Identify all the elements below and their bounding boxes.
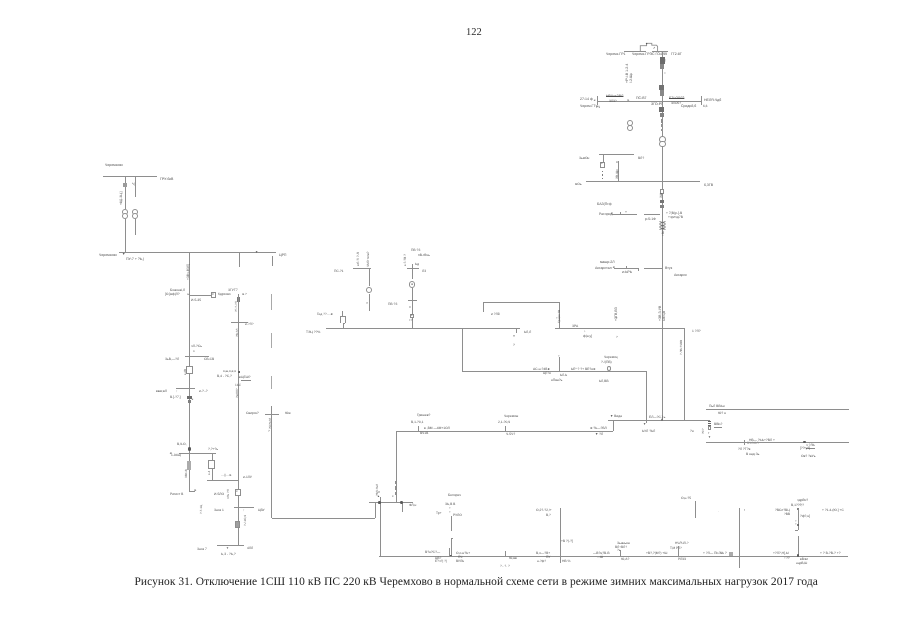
junction dot x401 (400, 501, 402, 503)
tiny mark y350 (193, 350, 195, 353)
marks below x515 (513, 335, 515, 339)
label Zbaneva (617, 542, 630, 545)
rotated label left x238 (227, 489, 230, 499)
label flow y439 (749, 439, 775, 442)
label Raspred (599, 213, 612, 217)
label Rigist V (170, 493, 183, 496)
wire cross on x412 (408, 300, 417, 301)
wire bottom bus y556 (379, 556, 848, 557)
tick x678 (678, 546, 679, 556)
breaker box x211 (208, 460, 215, 470)
marks on x135 (132, 183, 135, 187)
switch box end y295 (211, 292, 217, 298)
wire y480 to x238 (207, 480, 238, 481)
rotated label x702 (702, 429, 705, 435)
tick x505 bus (505, 551, 506, 555)
label bLVV (599, 380, 609, 383)
label bUL (642, 430, 655, 433)
wire drop x211 (212, 453, 213, 480)
tick on raspred line (620, 212, 621, 214)
rotated label x680 (680, 340, 683, 355)
label Zaoz 1 (214, 509, 224, 512)
switch x mark (616, 161, 618, 165)
arrowhead y453 (168, 452, 171, 455)
label b3-b (221, 553, 236, 556)
label Bozhonki (170, 289, 185, 292)
arrow bottom x646 (643, 423, 646, 426)
label left of bar y154 (578, 157, 588, 160)
breaker box y366 (186, 366, 194, 374)
label PV mid (388, 303, 397, 306)
wire GRU bus y176 (103, 176, 157, 177)
transformer T3 winding 2 (122, 213, 128, 219)
label flow grishevo (424, 427, 450, 430)
label group x773 (773, 552, 789, 555)
up arrow y390 (176, 390, 178, 393)
wire corner arm y491 (189, 491, 195, 492)
wire gen bus right (652, 51, 668, 52)
wire jog x798 (795, 530, 798, 531)
label group x800 (800, 558, 808, 561)
label PS-V7 (636, 97, 647, 101)
label FL-n (409, 504, 416, 507)
symbol cluster on trunk y188-208 (660, 189, 664, 194)
wire branch y295 (189, 295, 211, 296)
rotated label x189 top (187, 264, 190, 280)
label Cheremkhts (604, 356, 618, 359)
label f-n (800, 514, 810, 517)
rotated label on x617 (616, 169, 619, 179)
dense cluster on trunk y84-96 (659, 85, 663, 90)
label left y388 (156, 390, 167, 393)
label GRU-6kV (160, 178, 173, 182)
tick x744 on y442 (744, 440, 745, 445)
label CheremGT (579, 105, 596, 109)
label group x820 (820, 552, 841, 555)
wire line y420 (608, 420, 709, 421)
transformer T1 winding 2 (627, 125, 633, 131)
wire stub x695 (695, 501, 696, 518)
label left end bus y181 (574, 183, 581, 186)
wire tram drop x559 (559, 302, 560, 329)
wire x189 to corner y491 (189, 470, 190, 491)
wire drop x617 (618, 161, 619, 181)
label TETs pct (306, 331, 320, 334)
label group x425 (425, 551, 440, 554)
label in gap (524, 331, 531, 334)
wire step x613 (613, 420, 614, 431)
wire x450 jog (451, 538, 454, 539)
label bE flows (571, 368, 596, 371)
label O2 group (536, 509, 552, 512)
transformer T1 winding 1 (627, 120, 633, 126)
rotated label left of main line (625, 64, 629, 83)
grey box x729 (729, 552, 733, 555)
label TsVU (257, 509, 264, 512)
wire line y442 (706, 442, 849, 443)
tick above y371 (559, 357, 560, 371)
label ZGO-RG (651, 103, 663, 107)
arrowhead angarsk (612, 266, 615, 269)
label right of trunk y212 (666, 212, 682, 215)
rotated label ChMZ (367, 252, 370, 267)
wire stub x238 below bus (239, 252, 240, 267)
label V-7-27 (170, 396, 181, 399)
dot on x238 y371 (238, 371, 240, 373)
wire TETs bus right segment (555, 328, 685, 329)
wire bus y252 (119, 252, 276, 253)
wire drop x369 upper (369, 268, 370, 286)
plus marks x557 (556, 317, 561, 320)
tick x620 (620, 550, 621, 555)
label i-ERB (622, 270, 632, 274)
arrowhead karkhov (242, 293, 247, 296)
label PS-1 (334, 270, 344, 273)
label TsESh (241, 376, 251, 381)
label below y431 (595, 433, 603, 436)
capacitor marks y476 (221, 474, 232, 477)
wire x798 lower (798, 536, 799, 556)
label chdrV (797, 499, 808, 502)
wire rect bottom y518 (272, 518, 375, 519)
label group x703 (703, 552, 722, 555)
wire gen bus left (624, 51, 646, 52)
label nPva (551, 379, 562, 382)
wire mid line y371 (462, 371, 646, 372)
label RULO (453, 514, 462, 517)
tick end angarsk left (638, 268, 639, 271)
wire stub x272 below bus (272, 256, 273, 266)
wire cross y414 (265, 414, 279, 415)
wire dash x271 c (271, 376, 272, 389)
wire x271 solid to rect corner (271, 406, 272, 519)
wire line y502 (369, 502, 413, 503)
stub above plant box (342, 311, 343, 316)
tick left end (597, 96, 598, 105)
wire bar y154 (599, 154, 635, 155)
label BAZ (596, 203, 610, 207)
switch box on x602 (600, 162, 604, 169)
label right y388 (199, 390, 208, 393)
transformer T2 winding 1 on trunk (659, 136, 666, 143)
rotated label on x124 (120, 191, 123, 205)
dark cluster on x189 y396 (187, 396, 191, 399)
transformer T3 winding 1 (122, 209, 128, 215)
tick arrow y509 (243, 509, 245, 512)
label TsE (543, 372, 551, 375)
light marks on trunk y119-131 (659, 107, 664, 112)
down arrow x586 (584, 330, 586, 334)
label AS line (533, 368, 551, 371)
junction dot trunk y420 (661, 419, 663, 421)
wire drop x135 (135, 176, 136, 197)
tick x448 (449, 548, 450, 550)
rotated label x238 y300-312 (235, 301, 238, 312)
arrow below y545 (226, 547, 229, 550)
label right of cross y321 (245, 323, 253, 326)
label Cheremkhsh (504, 415, 518, 418)
label GG2-8G (670, 53, 681, 57)
label Vtuz (665, 267, 672, 271)
dot on y442 (803, 441, 805, 443)
label right y356 (204, 358, 214, 361)
wire line y431 (396, 431, 613, 432)
wire cross x238 y321 (231, 322, 248, 323)
label flow y427 (590, 426, 607, 429)
small circle on y371 (607, 366, 612, 371)
label bd (415, 263, 419, 266)
transformer T4 winding 2 (132, 213, 138, 219)
wire x412 to TETs bus (412, 288, 413, 329)
page number (466, 26, 482, 37)
label i-Lj (491, 313, 500, 316)
rotated label k-left (357, 252, 360, 266)
generator plant symbol outline (636, 40, 662, 54)
label ZGUT (228, 288, 238, 291)
breaker box x238 y521 (235, 521, 240, 528)
tick small (626, 266, 627, 268)
switch blob top of x238 (237, 297, 240, 301)
label group x593 (593, 552, 610, 555)
wire bus y181 (586, 181, 701, 182)
dot x798 bus (797, 554, 800, 557)
wire main vertical trunk x662 (662, 51, 663, 420)
junction dot x379 y502 (378, 501, 381, 504)
tiny mark x268 (268, 430, 270, 433)
grey symbol on x189 y461 (187, 461, 192, 469)
switch column x709 between y420 and y442 (708, 420, 711, 423)
arrow top x379 (377, 495, 380, 498)
rotated label x244 (244, 515, 247, 526)
label f(a,u) (583, 335, 592, 338)
transformer T4 winding 1 (132, 209, 138, 215)
label Kdrkhovo (218, 293, 231, 296)
rotated label x238 y325-337 (236, 329, 239, 337)
label Yuzh (285, 412, 291, 415)
arrowhead corner (194, 489, 197, 492)
arrow on bus x257 (255, 251, 258, 254)
wire drop x412 upper (412, 264, 413, 279)
label n (690, 430, 694, 433)
label Yu-vv (509, 557, 517, 560)
label Tr (436, 511, 442, 514)
dashed marks (500, 565, 510, 568)
label Zaoz 7 (197, 548, 207, 551)
tick x515 below bus (516, 328, 517, 333)
label Cheremkhovo bus (99, 254, 117, 258)
dot x745 (744, 509, 745, 512)
wire x560 down to bus and below (560, 508, 561, 563)
label Sredny (681, 105, 696, 109)
label PbL (709, 405, 725, 408)
label Belorech (448, 494, 461, 497)
wire rect top y301 (483, 302, 559, 303)
junction dot x189 y448 (188, 447, 191, 450)
dot x798 mid (797, 524, 799, 526)
wire angarsk left (614, 268, 638, 269)
switch box on x412 (410, 314, 414, 319)
winding symbol on trunk y221-229 (659, 221, 666, 230)
tick x418 (418, 426, 419, 431)
dot x798 top (797, 508, 799, 510)
transformer T2 winding 2 on trunk (659, 141, 666, 148)
label Angarsk (673, 273, 686, 277)
arrowhead y100 (627, 99, 630, 102)
rotated label below y414 (269, 418, 272, 429)
wire x450 upper (451, 516, 452, 532)
wire angarsk right (644, 268, 663, 269)
arrowhead into x189 (187, 293, 190, 296)
wire corner drop x646 (646, 371, 647, 423)
label Vida (610, 415, 622, 418)
label PU-7 (126, 258, 144, 262)
wire y545 (217, 545, 244, 546)
wire x450 lower (451, 538, 452, 556)
label TsRP (279, 254, 286, 258)
wire feeder x189 (189, 252, 190, 490)
label Gid + arrowhead (317, 313, 333, 316)
wire x124 lower to bus (125, 219, 126, 252)
label group x678 (675, 542, 689, 545)
wire corner drop x684 (684, 328, 685, 420)
wire bar PV (407, 268, 419, 269)
wire left side x461 (462, 328, 463, 371)
marks y72 (664, 71, 666, 74)
label group x536 (536, 552, 550, 555)
label 1-94 (170, 454, 180, 457)
arrowhead y100 left (593, 99, 596, 102)
label bL-b (560, 374, 567, 377)
rotated label k-right (404, 254, 407, 266)
mark inside M2 (411, 283, 413, 286)
label group x822 (822, 509, 844, 512)
label Yu-n (718, 412, 726, 415)
switch box x238 y489 (235, 489, 241, 495)
wire line y409 (706, 409, 849, 410)
label pV (418, 254, 430, 257)
rotated label x237 (236, 388, 239, 398)
label 4LL (247, 547, 253, 550)
wire cross y388 (176, 388, 195, 389)
tick x449 (449, 549, 450, 556)
figure caption (135, 576, 815, 588)
rotated label breaker (184, 369, 187, 375)
marks on x412 (409, 306, 411, 309)
label Cheremkh GRES (631, 53, 666, 57)
label 1bS (235, 384, 241, 387)
wire x738 through bus (739, 508, 740, 568)
wire x135 below transformer (135, 219, 136, 235)
wire rect right side x374 (375, 502, 376, 518)
tick x505 above y431 (505, 426, 506, 431)
label at x560 top (561, 540, 573, 543)
wire bar PS1 (353, 268, 371, 269)
label at trunk end (649, 415, 665, 418)
wire branch y453 (179, 453, 217, 454)
wire x798 upper (798, 509, 799, 530)
label below y442 (738, 447, 750, 450)
label above cross y356 (191, 345, 202, 348)
label V9-O (177, 443, 187, 446)
wire drop x401 (402, 502, 403, 512)
label grey (747, 442, 759, 445)
tiny marks x615 (615, 336, 617, 339)
wire x396 down to y502 (396, 431, 397, 503)
wire drop x602 upper (603, 154, 604, 162)
label ZRA (572, 325, 578, 328)
label r-5-1F (644, 218, 655, 222)
label 6.3GV (703, 184, 712, 188)
wire raspred right (644, 214, 660, 215)
label O-n-5 (681, 497, 691, 500)
label crossed flow (606, 95, 623, 99)
label Svirsk (246, 412, 259, 415)
label 27-14 (579, 98, 592, 102)
label LZ (422, 270, 426, 273)
label mashr-2L (600, 261, 615, 265)
wire horizontal y100 (597, 101, 701, 102)
label V4-S (217, 375, 232, 378)
label 1-L (692, 330, 701, 333)
rotated label x201 (200, 505, 203, 514)
label above x211 (207, 448, 217, 451)
arrow down at x124 (122, 253, 125, 257)
plant box symbol x339-345 (340, 316, 341, 323)
wire cross y356 (185, 356, 209, 357)
label Cheremkhovo top left (105, 164, 123, 168)
rotated label x558 (558, 309, 561, 322)
label x720 (720, 552, 727, 555)
machine circle M1 (366, 287, 372, 293)
label i-1LU (243, 476, 252, 479)
label PV upper (411, 249, 420, 252)
tick right end (701, 96, 702, 105)
machine circle M2 (409, 281, 416, 288)
dot x718 (718, 510, 719, 513)
label Ov (801, 455, 815, 458)
plus tick (625, 211, 627, 215)
rotated label trunk y302-321 (659, 306, 663, 321)
wire drop x369 lower (369, 294, 370, 312)
label group x456 (456, 552, 470, 555)
label VVb (714, 423, 722, 428)
rotated label x376 (376, 484, 379, 496)
junction dot x450 bus (449, 555, 452, 558)
wire TETs bus left segment (326, 328, 520, 329)
label right of bar y154 (638, 157, 644, 160)
label left y356 (165, 358, 179, 361)
label ch-Lb (806, 444, 815, 449)
label Angarstal (595, 267, 612, 271)
label NV pct (562, 560, 570, 563)
label Ch-5Ch (506, 433, 515, 436)
label Grishevo (417, 414, 430, 417)
wire x379 down to bottom bus (380, 497, 381, 556)
x mark on x369 (366, 302, 368, 306)
label I-5LO (214, 493, 224, 496)
label VSl (775, 509, 790, 512)
wire feeder x238 long (238, 294, 239, 545)
wire drop x124 upper (125, 176, 126, 209)
label group x646 (646, 552, 667, 555)
arrowhead tsesh (238, 376, 241, 379)
rotated label x615 y303-321 (615, 307, 619, 321)
label marks y370 (223, 370, 236, 373)
label I-5-35 (191, 299, 201, 302)
wire dash x271 b (271, 333, 272, 348)
wire rect left stub x483 (483, 302, 484, 313)
label NELYa (704, 99, 721, 103)
